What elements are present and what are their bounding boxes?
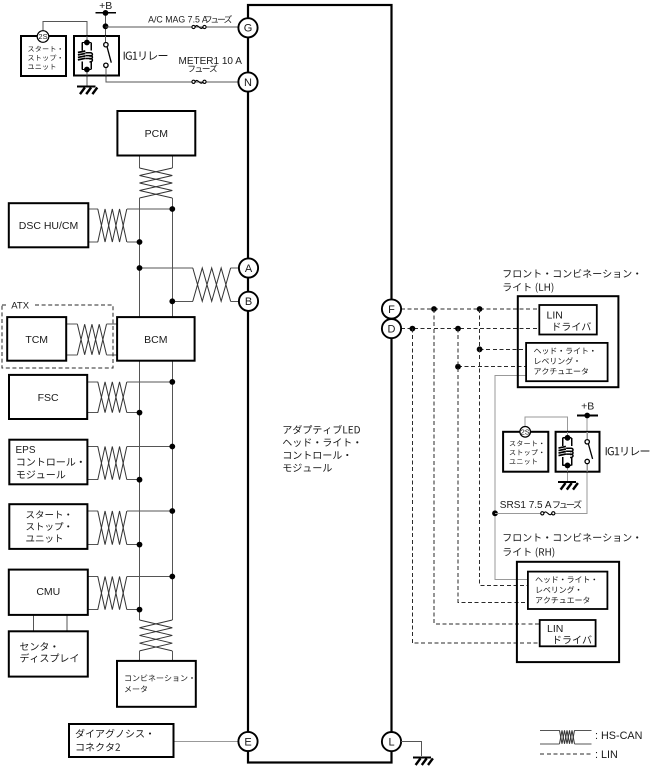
label leveling actuator LH <box>534 348 594 355</box>
junction dot start-stop unit upper on right bus <box>169 508 175 514</box>
LIN dashed vertical x479.6 (F to RH leveling actuator) <box>480 309 528 585</box>
junction dot on vertical x479.6 at LH actuator branch <box>477 346 483 352</box>
wire stub switch output inside relay box (right) <box>586 464 588 472</box>
label center display <box>20 642 55 651</box>
label front combination light RH <box>504 533 639 542</box>
twisted pair start-stop unit (HS-CAN) <box>98 511 127 545</box>
svg-text:ATX: ATX <box>11 301 29 312</box>
module: TCM <box>7 317 66 361</box>
svg-text:PCM: PCM <box>145 128 168 140</box>
junction dot FSC upper on right bus <box>169 379 175 385</box>
svg-text:N: N <box>244 77 252 89</box>
label METER1 fuse line2 <box>189 64 218 72</box>
submodule: headlight leveling actuator (RH) <box>528 572 608 609</box>
svg-text:B: B <box>245 296 252 308</box>
wire DSC HU/CM lower to left bus <box>88 241 98 243</box>
module: start-stop unit (right) <box>503 432 548 472</box>
wire EPS control module upper to right bus <box>87 446 97 448</box>
legend HS-CAN twisted pair symbol <box>540 729 559 731</box>
svg-text:A/C MAG 7.5 A: A/C MAG 7.5 A <box>148 15 208 25</box>
twisted pair FSC (HS-CAN) <box>98 382 127 413</box>
module: start-stop unit (top-left) <box>21 36 66 76</box>
svg-text:FSC: FSC <box>38 392 59 404</box>
svg-text:L: L <box>388 737 394 749</box>
module: CMU <box>9 570 88 615</box>
junction dot start-stop unit lower on left bus <box>137 542 143 548</box>
svg-text:+B: +B <box>99 0 112 12</box>
wire stub coil feed inside relay box (top-left) <box>86 36 88 43</box>
junction dot on vertical x458 at LH actuator branch <box>455 364 461 370</box>
junction dot CMU upper on right bus <box>169 574 175 580</box>
junction dot DSC lower on left bus <box>137 239 143 245</box>
wire CMU upper to right bus <box>87 576 97 578</box>
junction dot CMU lower on left bus <box>137 607 143 613</box>
wire DSC HU/CM upper to right bus <box>88 208 98 210</box>
twisted pair TCM-BCM (HS-CAN) <box>77 324 106 355</box>
LIN dashed line connector F to LH LIN driver <box>401 308 540 310</box>
label diagnosis connector 2 <box>76 729 151 738</box>
junction dot EPS control module upper on right bus <box>169 444 175 450</box>
wire TCM upper to BCM <box>66 323 77 325</box>
wire FSC lower to left bus <box>87 412 97 414</box>
svg-text:A: A <box>245 263 253 275</box>
svg-text:METER1 10 A: METER1 10 A <box>179 56 243 67</box>
junction dot B on right bus <box>169 298 175 304</box>
label ATX <box>9 300 34 310</box>
fuse A/C MAG 7.5 A <box>195 26 203 29</box>
label IG1 relay (top-left) <box>124 51 168 60</box>
svg-text:CMU: CMU <box>36 586 60 598</box>
LIN dashed vertical x412.4 (D to RH LIN driver) <box>412 329 539 644</box>
svg-text:2S: 2S <box>38 32 47 41</box>
wire EPS control module lower to left bus <box>87 479 97 481</box>
submodule: headlight leveling actuator (LH) <box>526 343 608 381</box>
connector node N <box>238 72 257 91</box>
LIN dashed branch to LH leveling actuator (from F) <box>480 348 526 350</box>
relay coil (top-left IG1) <box>82 42 91 44</box>
junction dot A on left bus <box>137 265 143 271</box>
wire start-stop unit upper to right bus <box>87 510 97 512</box>
relay box IG1 (right) <box>556 432 600 472</box>
module: diagnosis connector 2 <box>69 724 174 757</box>
junction dot on +B bar (right) <box>584 413 590 419</box>
junction dot F-line at x434 <box>431 306 437 312</box>
module: adaptive LED headlight control module <box>248 5 392 763</box>
connector node A <box>239 258 258 277</box>
label start-stop unit (top-left) <box>28 46 61 52</box>
HS-CAN bus line left <box>139 198 141 620</box>
module: FSC <box>9 375 87 419</box>
module: center display <box>9 631 88 676</box>
module: start-stop unit (left column) <box>9 504 87 549</box>
twisted pair CMU (HS-CAN) <box>98 577 127 610</box>
svg-text:E: E <box>244 736 251 748</box>
wire relay coil to ground (right) <box>567 465 569 481</box>
junction dot coil top (top-left) <box>84 40 90 46</box>
junction dot coil bottom (top-left) <box>84 67 90 73</box>
wire stub switch output inside relay box (top-left) <box>105 67 107 76</box>
LIN dashed vertical x458 (D to RH leveling actuator) <box>458 329 528 603</box>
module: front combination light RH <box>517 562 619 662</box>
module: DSC HU/CM <box>9 203 89 247</box>
svg-text:BCM: BCM <box>144 334 167 346</box>
module: front combination light LH <box>518 296 619 387</box>
wire FSC upper to right bus <box>87 381 97 383</box>
LIN dashed branch to LH leveling actuator (from D) <box>458 366 526 368</box>
svg-text:+B: +B <box>581 400 594 412</box>
HS-CAN bus line right <box>171 198 173 620</box>
+B terminal bar (right) <box>577 415 598 417</box>
svg-text:EPS: EPS <box>16 445 36 456</box>
junction dot FSC lower on left bus <box>137 410 143 416</box>
svg-text:DSC HU/CM: DSC HU/CM <box>19 220 79 232</box>
connector node F <box>382 299 401 318</box>
connector node G <box>238 18 257 37</box>
svg-text:LIN: LIN <box>547 623 563 635</box>
wire CMU lower to left bus <box>87 609 97 611</box>
wire connector B to right bus <box>172 300 193 302</box>
wire TCM lower to BCM <box>66 354 77 356</box>
junction dot coil top (right) <box>565 435 571 441</box>
LIN dashed vertical x434 (F to RH LIN driver) <box>434 309 540 624</box>
junction dot +B branch to A/C MAG fuse <box>103 23 109 29</box>
twisted pair below PCM (HS-CAN) <box>140 168 173 198</box>
junction dot D-line at x458 <box>455 326 461 332</box>
relay box IG1 (top-left) <box>74 36 119 76</box>
label leveling actuator RH <box>535 576 595 583</box>
svg-text:2S: 2S <box>521 427 530 436</box>
wire 2S connector to relay coil <box>43 21 87 42</box>
wire +B feed to IG1 relay switch (top-left) <box>105 13 107 43</box>
group box ATX (dashed) <box>2 305 113 368</box>
label start-stop unit (right) <box>510 440 543 446</box>
wire SRS1 fuse line to IG1 relay <box>495 512 541 514</box>
connector node B <box>239 292 258 311</box>
label: adaptive LED head light control module <box>284 425 360 434</box>
ground symbol (right relay) <box>558 481 576 483</box>
relay coil (right IG1) <box>563 437 572 439</box>
wire stub coil to ground inside relay box (top-left) <box>86 70 88 76</box>
label start-stop unit (left column) <box>26 510 69 518</box>
legend LIN dashed symbol <box>540 753 591 755</box>
module: PCM <box>117 111 195 156</box>
junction dot DSC upper on right bus <box>169 206 175 212</box>
wire stub switch feed inside relay box (top-left) <box>105 36 107 43</box>
wire 2S connector to relay coil (right) <box>525 417 567 437</box>
connector node D <box>382 319 401 338</box>
svg-text:G: G <box>244 23 253 35</box>
relay switch (right IG1) <box>585 440 589 444</box>
label front combination light LH <box>504 269 639 278</box>
LIN dashed line connector D to LH LIN driver <box>401 328 540 330</box>
wire +B feed to IG1 relay switch (right) <box>586 416 588 441</box>
wire connector L to ground <box>401 742 421 756</box>
fuse SRS1 7.5 A <box>544 512 552 515</box>
wire connector A to left bus <box>140 267 193 269</box>
svg-text:LIN: LIN <box>547 310 563 322</box>
junction dot D-line at x412.4 <box>410 326 416 332</box>
wire stub coil to ground inside relay box (right) <box>567 465 569 471</box>
ground symbol (connector L) <box>413 756 431 758</box>
fuse METER1 10 A <box>195 80 203 83</box>
connector 2S (top-left) <box>37 31 49 43</box>
ground symbol (top-left relay) <box>77 85 95 87</box>
wire PCM to HS-CAN twisted pair stubs <box>139 156 141 169</box>
connector 2S (right) <box>520 427 531 438</box>
wire LH leveling actuator power <box>495 375 526 513</box>
wire stub coil feed inside relay box (right) <box>567 432 569 438</box>
module: combination meter <box>117 661 196 707</box>
wire RH leveling actuator power <box>495 513 528 579</box>
module: BCM <box>117 317 195 361</box>
wire diagnosis connector 2 to connector E <box>174 741 239 743</box>
junction dot EPS control module lower on left bus <box>137 477 143 483</box>
svg-text:: LIN: : LIN <box>595 749 618 761</box>
wire relay switch to METER1 fuse and connector N <box>106 68 239 82</box>
svg-text:SRS1 7.5 A: SRS1 7.5 A <box>500 500 552 511</box>
junction dot F-line at x479.6 <box>477 306 483 312</box>
twisted pair EPS control module (HS-CAN) <box>98 447 127 480</box>
wire start-stop unit lower to left bus <box>87 544 97 546</box>
label IG1 relay (right) <box>606 447 650 456</box>
twisted pair to combination meter (HS-CAN) <box>140 620 173 651</box>
connector node L <box>382 732 401 751</box>
wire twisted pair to combination meter box <box>139 651 141 661</box>
wire to A/C MAG fuse and connector G <box>106 26 239 28</box>
svg-text:: HS-CAN: : HS-CAN <box>595 730 642 742</box>
label combination meter <box>125 674 193 681</box>
wires CMU to center display <box>32 615 34 631</box>
twisted pair to connectors A/B (HS-CAN) <box>193 268 231 301</box>
module: EPS control module <box>9 440 87 485</box>
twisted pair DSC HU/CM (HS-CAN) <box>98 209 127 242</box>
submodule: LIN driver (RH) <box>540 620 596 646</box>
connector node E <box>238 732 257 751</box>
wire relay coil to ground (top-left) <box>86 70 88 86</box>
junction dot on +B bar <box>103 10 109 16</box>
junction dot SRS1 fuse line <box>492 510 498 516</box>
svg-text:D: D <box>388 324 396 336</box>
svg-text:F: F <box>388 304 395 316</box>
junction dot coil bottom (right) <box>565 463 571 469</box>
wire stub switch feed inside relay box (right) <box>586 432 588 440</box>
relay switch (top-left IG1) <box>104 43 108 47</box>
+B terminal bar (top-left) <box>96 12 117 14</box>
svg-text:TCM: TCM <box>25 334 48 346</box>
submodule: LIN driver (LH) <box>539 305 597 335</box>
